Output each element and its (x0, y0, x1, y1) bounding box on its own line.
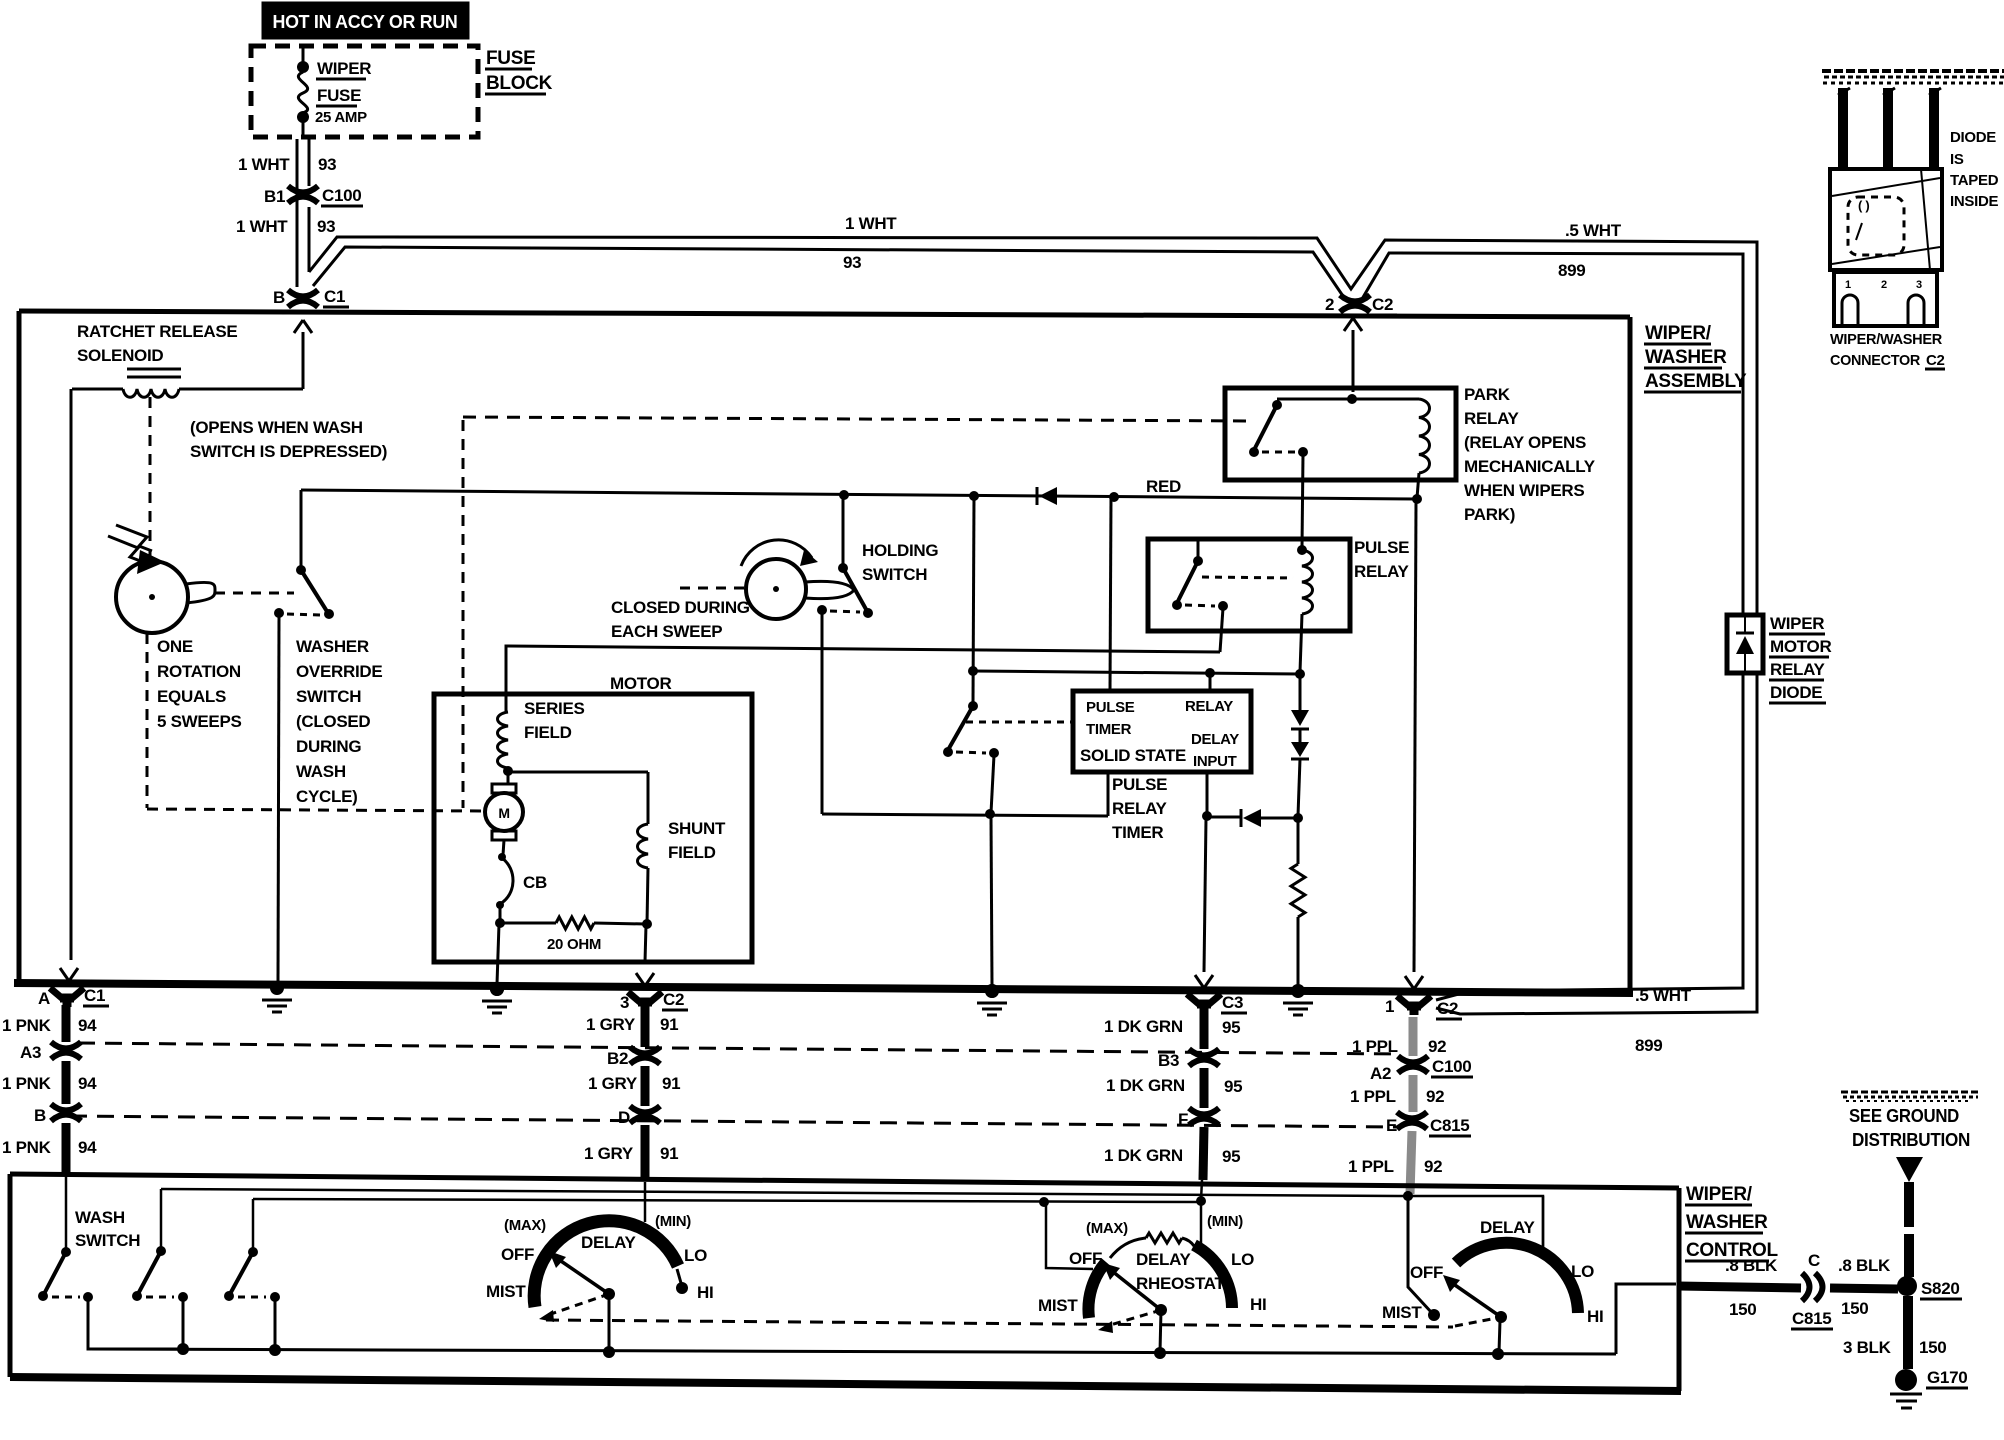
wire wash switch 2 riser (160, 1189, 163, 1250)
holding switch dashed throw (830, 611, 860, 612)
svg-text:92: 92 (1424, 1157, 1442, 1176)
svg-text:F: F (1178, 1110, 1188, 1129)
park relay armature end (1249, 447, 1259, 457)
svg-text:RELAY: RELAY (1112, 799, 1168, 818)
connector terminal D (630, 1106, 660, 1123)
svg-text:WHEN WIPERS: WHEN WIPERS (1464, 481, 1584, 500)
svg-text:150: 150 (1729, 1300, 1756, 1319)
svg-text:DELAY: DELAY (1191, 731, 1239, 748)
ground distribution arrow (1896, 1157, 1923, 1182)
wire node RED run (301, 490, 1417, 499)
junction wash bus at rotary 3 (1492, 1348, 1504, 1360)
connector C2 diode pocket dashed (1848, 197, 1904, 255)
rotary switch 1 wiper arm (558, 1259, 609, 1294)
ground at pulse relay timer node (977, 984, 1007, 1015)
svg-text:HOLDING: HOLDING (862, 541, 938, 560)
pulse relay armature end (1172, 600, 1182, 610)
wire pulse relay timer node to ground (991, 817, 992, 985)
wire 1 PPL segment 3 (stippled) (1410, 1131, 1412, 1194)
junction wash bus at rotary 2 (1154, 1347, 1166, 1359)
wire park relay coil to RED node (1417, 473, 1419, 498)
svg-text:FIELD: FIELD (668, 843, 716, 862)
svg-text:1 DK GRN: 1 DK GRN (1106, 1076, 1185, 1095)
svg-text:1 PPL: 1 PPL (1350, 1087, 1396, 1106)
wire delay link (1209, 816, 1241, 819)
svg-text:1 PPL: 1 PPL (1348, 1157, 1394, 1176)
control box top edge (10, 1174, 1679, 1188)
wire PNK inside control box (65, 1176, 68, 1250)
wire .5 WHT below diode outer (1436, 673, 1757, 1014)
svg-text:.8 BLK: .8 BLK (1725, 1256, 1778, 1275)
svg-text:EACH SWEEP: EACH SWEEP (611, 622, 722, 641)
svg-text:SOLENOID: SOLENOID (77, 346, 163, 365)
svg-text:(MIN): (MIN) (655, 1213, 691, 1230)
svg-text:HI: HI (697, 1283, 713, 1302)
svg-text:RELAY: RELAY (1464, 409, 1520, 428)
diode CR2 (1291, 710, 1309, 726)
svg-text:HI: HI (1587, 1307, 1603, 1326)
park relay top wire (1277, 398, 1419, 401)
svg-text:94: 94 (78, 1138, 97, 1157)
rotary switch 2 dashed mist arm (1107, 1310, 1161, 1326)
svg-text:93: 93 (843, 253, 861, 272)
svg-text:WIPER/: WIPER/ (1686, 1184, 1753, 1205)
svg-text:DURING: DURING (296, 737, 361, 756)
wire shunt to 3 C2 drop (645, 925, 646, 962)
pulse relay box (1148, 539, 1350, 631)
fuse F1 element (298, 72, 307, 113)
svg-text:C100: C100 (1432, 1057, 1471, 1076)
pulse relay armature pivot (1193, 556, 1203, 566)
svg-text:2: 2 (1881, 279, 1887, 291)
svg-text:2: 2 (1325, 295, 1334, 314)
wire fuse top lead (302, 46, 305, 64)
junction at holding switch feed (839, 490, 849, 500)
wire control feed line 2 (253, 1199, 1199, 1202)
resistor 20 OHM leads (500, 922, 556, 925)
rotary switch 1 dashed mist arm (548, 1294, 609, 1315)
pulse relay coil top junction (1297, 545, 1307, 555)
junction solid state relay pin (1205, 668, 1215, 678)
solenoid L1 coil (123, 389, 179, 397)
svg-text:B3: B3 (1158, 1051, 1179, 1070)
wire holding switch contact drop (821, 613, 824, 814)
pulse relay armature blade (1177, 561, 1198, 603)
assembly bottom bus (thick) (14, 983, 1633, 993)
svg-text:PULSE: PULSE (1354, 538, 1409, 557)
junction PPL on wiper feed line (1403, 1191, 1413, 1201)
svg-text:WIPER/WASHER: WIPER/WASHER (1830, 331, 1942, 348)
svg-text:150: 150 (1919, 1338, 1946, 1357)
park relay box (1225, 388, 1456, 480)
dashed link cam to motor armature (147, 809, 482, 811)
cam side tab (186, 582, 215, 603)
arrow down at connector C3 (1195, 975, 1213, 988)
dashed link solenoid to cam (149, 397, 152, 558)
holding switch blade end (863, 608, 873, 618)
svg-text:91: 91 (662, 1074, 680, 1093)
svg-text:899: 899 (1635, 1036, 1662, 1055)
rotary switch 3 dashed mist link (1455, 1318, 1497, 1326)
diode CR3 (1291, 742, 1309, 757)
junction series field to armature (503, 766, 513, 776)
wire relay input run (973, 671, 1300, 674)
wash switch 3 pivot (248, 1247, 258, 1257)
svg-text:5 SWEEPS: 5 SWEEPS (157, 712, 242, 731)
arrow down at connector A (60, 968, 78, 981)
svg-text:25 AMP: 25 AMP (315, 109, 367, 126)
wire rotary 1 wiper to wash bus (608, 1294, 611, 1351)
wire control feed line 1 (161, 1189, 1543, 1253)
svg-text:FIELD: FIELD (524, 723, 572, 742)
svg-text:S820: S820 (1921, 1279, 1960, 1298)
svg-text:B1: B1 (264, 187, 285, 206)
connector C1 terminal B (288, 290, 318, 307)
pulse relay contact (1218, 601, 1228, 611)
svg-text:(CLOSED: (CLOSED (296, 712, 370, 731)
wire solenoid to C1 terminal B riser (302, 332, 305, 389)
wire holding switch feed drop (842, 495, 845, 566)
junction diode chain node (1293, 813, 1303, 823)
svg-text:MIST: MIST (1382, 1303, 1422, 1322)
svg-text:WASHER: WASHER (1686, 1212, 1768, 1233)
motor box (434, 694, 752, 962)
svg-text:(RELAY OPENS: (RELAY OPENS (1464, 433, 1586, 452)
svg-text:RELAY: RELAY (1185, 698, 1233, 715)
pulse switch dashed throw (956, 752, 986, 753)
svg-text:CONNECTOR: CONNECTOR (1830, 352, 1920, 369)
wire pulse timer pin riser (1110, 497, 1111, 691)
pulse relay pivot stub (1197, 541, 1200, 560)
park relay coil K1 (1419, 399, 1430, 473)
svg-text:1 DK GRN: 1 DK GRN (1104, 1017, 1183, 1036)
svg-text:WASH: WASH (296, 762, 346, 781)
rotary switch 2 rheostat lead right (1182, 1238, 1194, 1246)
hatch above SEE GROUND (1841, 1091, 1980, 1094)
svg-text:A2: A2 (1370, 1064, 1391, 1083)
svg-text:FUSE: FUSE (486, 48, 535, 69)
wire rotary 3 wiper to wash bus (1499, 1321, 1500, 1352)
connector C2 wire 2 (1883, 88, 1893, 170)
svg-text:C2: C2 (1926, 352, 1945, 369)
wire resistor R1 top lead (1297, 820, 1300, 864)
rotary switch 3 band (1456, 1243, 1578, 1313)
wire shunt field bottom lead (647, 868, 648, 924)
connector C2 terminal 1 (1397, 996, 1431, 1015)
wire 1 PPL segment 1 (stippled) (1409, 1017, 1418, 1056)
junction pulse relay timer node (985, 809, 995, 819)
dashed link cam down (146, 633, 149, 808)
svg-text:PARK): PARK) (1464, 505, 1515, 524)
junction CB resistor node (495, 918, 505, 928)
wire shunt field top lead (647, 772, 650, 824)
wire resistor R1 bottom lead (1297, 917, 1300, 985)
wash switch 1 dashed throw (52, 1296, 80, 1299)
wire feed line 1 drop to rotary 3 band (1542, 1196, 1545, 1253)
svg-text:.5 WHT: .5 WHT (1635, 986, 1692, 1005)
holding switch cam circle (746, 559, 806, 619)
connector C1 terminal A (50, 988, 84, 1007)
washer override switch blade end (324, 609, 334, 619)
diode CR4 on delay link (1240, 809, 1243, 827)
cam ONE ROTATION circle (116, 561, 188, 633)
junction at pulse switch feed (969, 491, 979, 501)
circuit breaker CB arc (500, 858, 513, 904)
wire 3 BLK to G170 (1903, 1296, 1913, 1369)
washer override switch blade (301, 570, 328, 613)
wire delay input pin drop (1206, 772, 1209, 814)
wash switch 3 blade end (224, 1291, 234, 1301)
wire delay input to C3 drop (1204, 818, 1206, 972)
rotary switch 2 wiper pivot (1155, 1304, 1167, 1316)
svg-text:OFF: OFF (501, 1245, 534, 1264)
wire .8 BLK output (1678, 1286, 1801, 1288)
wash switch 1 blade (44, 1252, 66, 1294)
svg-text:WIPER: WIPER (317, 59, 371, 78)
svg-text:93: 93 (318, 155, 336, 174)
wire holding switch contact east run (822, 814, 1108, 816)
wire solenoid right lead (179, 388, 303, 391)
svg-text:IS: IS (1950, 151, 1964, 168)
connector C3 terminal (1187, 994, 1221, 1013)
junction PPL feed node (1403, 1191, 1413, 1201)
fuse F1 bottom terminal (297, 111, 309, 123)
wash switch 2 blade (138, 1251, 161, 1294)
wash switch 2 contact (178, 1292, 188, 1302)
dashed link to holding switch cam (680, 587, 744, 590)
svg-text:D: D (618, 1108, 630, 1127)
svg-text:1: 1 (1845, 279, 1851, 291)
svg-text:1 PNK: 1 PNK (2, 1016, 52, 1035)
control box right edge (1677, 1188, 1682, 1391)
svg-text:CYCLE): CYCLE) (296, 787, 357, 806)
svg-text:SWITCH IS DEPRESSED): SWITCH IS DEPRESSED) (190, 442, 387, 461)
svg-text:3: 3 (1916, 279, 1922, 291)
svg-text:WASH: WASH (75, 1208, 125, 1227)
connector terminal A3 (51, 1042, 81, 1059)
svg-text:SWITCH: SWITCH (296, 687, 361, 706)
wire 1 PPL segment 2 (stippled) (1409, 1075, 1418, 1112)
wire 93 after C2 V (1362, 253, 1743, 615)
junction RED at park relay coil (1412, 494, 1422, 504)
connector C2 terminal 2 (1340, 295, 1370, 312)
pulse switch blade end (943, 747, 953, 757)
motor series field coil (498, 712, 509, 768)
connector C2 lower body (1834, 272, 1937, 326)
svg-text:B2: B2 (607, 1049, 628, 1068)
dashed mist gang link (546, 1320, 1453, 1327)
wash switch 2 pivot (156, 1246, 166, 1256)
svg-text:.5 WHT: .5 WHT (1565, 221, 1622, 240)
svg-text:C815: C815 (1792, 1309, 1831, 1328)
harness hatch band (1822, 69, 2004, 73)
rotary switch 3 wiper pivot (1495, 1311, 1507, 1323)
wash switch 3 dashed throw (238, 1296, 266, 1299)
wire 1 DK GRN segment 1 (1200, 1011, 1209, 1049)
rotary switch 1 wiper pivot (603, 1288, 615, 1300)
rotary switch 2 rheostat lead left (1110, 1238, 1146, 1258)
wire 1 GRY segment 3 (641, 1125, 650, 1180)
svg-text:3 BLK: 3 BLK (1843, 1338, 1892, 1357)
wire 1 PNK segment 2 (62, 1061, 71, 1104)
connector terminal E C815 (1397, 1112, 1427, 1129)
wire control feed to rotary 2 MIN (1200, 1203, 1203, 1243)
wire wash switch 3 riser (252, 1199, 255, 1250)
svg-text:HI: HI (1250, 1295, 1266, 1314)
wire solenoid left drop to A C1 (70, 389, 73, 960)
svg-text:TAPED: TAPED (1950, 172, 1999, 189)
svg-text:92: 92 (1428, 1037, 1446, 1056)
rotary switch 1 DELAY band (534, 1221, 678, 1307)
connector C815 terminal C (1802, 1273, 1810, 1301)
rotary switch 1 HI contact (676, 1282, 688, 1294)
ground at washer override switch (262, 981, 292, 1012)
junction wash bus at switch 3 (269, 1344, 281, 1356)
svg-text:1 WHT: 1 WHT (845, 214, 897, 233)
connector C100 terminal B1 (288, 186, 318, 203)
arrow up under C1 terminal B (294, 320, 312, 333)
park relay armature pivot (1272, 400, 1282, 410)
svg-text:RATCHET RELEASE: RATCHET RELEASE (77, 322, 237, 341)
wire wash switch 1 contact drop (88, 1299, 183, 1349)
wire pulse switch feed drop (973, 496, 974, 704)
svg-text:LO: LO (1571, 1262, 1594, 1281)
washer override switch pivot (296, 565, 306, 575)
wiper/washer assembly box top edge (19, 311, 1630, 317)
ground junction at resistor R1 (1283, 984, 1313, 1015)
svg-text:OFF: OFF (1069, 1249, 1102, 1268)
svg-text:FUSE: FUSE (317, 86, 361, 105)
svg-text:C1: C1 (324, 287, 345, 306)
wire 1 DK GRN segment 2 (1200, 1068, 1209, 1108)
wire rotary 2 wiper to wash bus (1160, 1310, 1161, 1352)
svg-text:(MIN): (MIN) (1207, 1213, 1243, 1230)
control box bottom edge (10, 1377, 1681, 1391)
motor armature M bottom cap (492, 831, 516, 840)
holding switch pivot (838, 563, 848, 573)
connector C2 cavity 3 (1908, 295, 1924, 326)
cam lightning arrow (108, 536, 143, 562)
wire 1 PNK segment 1 (62, 1005, 71, 1042)
rotary switch 2 left band (1088, 1262, 1106, 1318)
wire DK GRN inside control box (1201, 1180, 1202, 1200)
rotary switch 1 HI stub (677, 1269, 681, 1283)
wiper motor relay diode box CR5 (1727, 615, 1763, 673)
dashed harness line C100 (78, 1043, 1400, 1054)
svg-text:WASHER: WASHER (296, 637, 369, 656)
svg-text:A: A (38, 989, 50, 1008)
diode CR2 bar (1291, 728, 1309, 731)
svg-text:C3: C3 (1222, 993, 1243, 1012)
ground symbol on bus mid (977, 984, 1007, 1015)
svg-text:SWITCH: SWITCH (862, 565, 927, 584)
wire 3 BLK upper segment (1904, 1182, 1914, 1227)
svg-text:94: 94 (78, 1074, 97, 1093)
diode CR3 bar (1291, 758, 1309, 761)
svg-text:1 GRY: 1 GRY (588, 1074, 638, 1093)
svg-text:1 WHT: 1 WHT (236, 217, 288, 236)
resistor 20 OHM (556, 917, 594, 929)
wash switch 1 contact (83, 1292, 93, 1302)
svg-text:EQUALS: EQUALS (157, 687, 226, 706)
wash switch 3 contact (270, 1292, 280, 1302)
connector C2 body (1830, 169, 1942, 270)
junction shunt field resistor (642, 919, 652, 929)
pulse switch pivot (968, 701, 978, 711)
connector C2 body detail diagonals (1832, 178, 1940, 196)
wire park relay coil node to 1 C2 (1414, 501, 1416, 972)
svg-text:DELAY: DELAY (1480, 1218, 1536, 1237)
wire .8 BLK to S820 (1830, 1288, 1898, 1289)
ground G170 (1895, 1369, 1917, 1391)
svg-text:95: 95 (1222, 1018, 1240, 1037)
wire 1 WHT 93 double-line C100 to C1 (308, 207, 311, 272)
svg-text:SHUNT: SHUNT (668, 819, 726, 838)
wire max node to OFF contact (1046, 1203, 1093, 1269)
wire C2 pin2 drop to park relay (1352, 330, 1355, 392)
solenoid L1 core bars (127, 368, 181, 371)
washer override switch riser (300, 490, 303, 568)
junction delay input node (1202, 811, 1212, 821)
wiper motor relay diode CR5 symbol (1736, 636, 1754, 654)
washer override switch dashed throw (287, 614, 320, 615)
wire resistor node to ground (497, 924, 499, 984)
svg-text:95: 95 (1222, 1147, 1240, 1166)
wire armature bottom lead (503, 840, 504, 855)
junction relay-input wire start (968, 666, 978, 676)
pulse relay coil K2 (1302, 550, 1313, 614)
svg-text:C815: C815 (1430, 1116, 1469, 1135)
wire 1 WHT feed upper run with V dip (309, 237, 1757, 615)
junction wash bus at rotary 1 (603, 1346, 615, 1358)
wash switch 2 dashed throw (146, 1296, 174, 1299)
svg-text:LO: LO (684, 1246, 707, 1265)
wire pulse relay coil bottom lead (1300, 614, 1302, 672)
svg-text:93: 93 (317, 217, 335, 236)
junction DK GRN on wiper feed line (1196, 1196, 1206, 1206)
junction pulse relay coil node (1295, 669, 1305, 679)
wire pulse switch contact drop (991, 755, 994, 813)
svg-text:CB: CB (523, 873, 547, 892)
svg-text:94: 94 (78, 1016, 97, 1035)
svg-text:TIMER: TIMER (1112, 823, 1163, 842)
svg-text:C2: C2 (1437, 999, 1458, 1018)
circuit breaker CB top terminal (498, 853, 506, 861)
svg-text:SOLID STATE: SOLID STATE (1080, 746, 1186, 765)
svg-text:B: B (273, 288, 285, 307)
pulse switch contact (989, 748, 999, 758)
svg-text:M: M (498, 805, 509, 821)
svg-text:HOT IN ACCY OR RUN: HOT IN ACCY OR RUN (273, 12, 458, 32)
connector terminal F (1189, 1108, 1219, 1125)
svg-text:RELAY: RELAY (1354, 562, 1410, 581)
wash switch 2 blade end (132, 1291, 142, 1301)
svg-text:MOTOR: MOTOR (1770, 637, 1831, 656)
svg-text:150: 150 (1841, 1299, 1868, 1318)
pulse relay dashed throw (1185, 605, 1215, 606)
svg-text:1 GRY: 1 GRY (584, 1144, 634, 1163)
svg-text:DELAY: DELAY (1136, 1250, 1192, 1269)
wire fuse bottom lead (302, 122, 305, 139)
wire 1 PNK segment 3 (62, 1123, 71, 1176)
splice S820 (1897, 1276, 1917, 1296)
connector C2 terminal 3 (628, 992, 662, 1011)
wire wash switch 2 contact drop (182, 1299, 185, 1349)
svg-text:1 PNK: 1 PNK (2, 1138, 52, 1157)
svg-text:( ): ( ) (1858, 198, 1869, 213)
svg-text:1: 1 (1385, 997, 1394, 1016)
dashed link to park relay (463, 417, 1252, 421)
